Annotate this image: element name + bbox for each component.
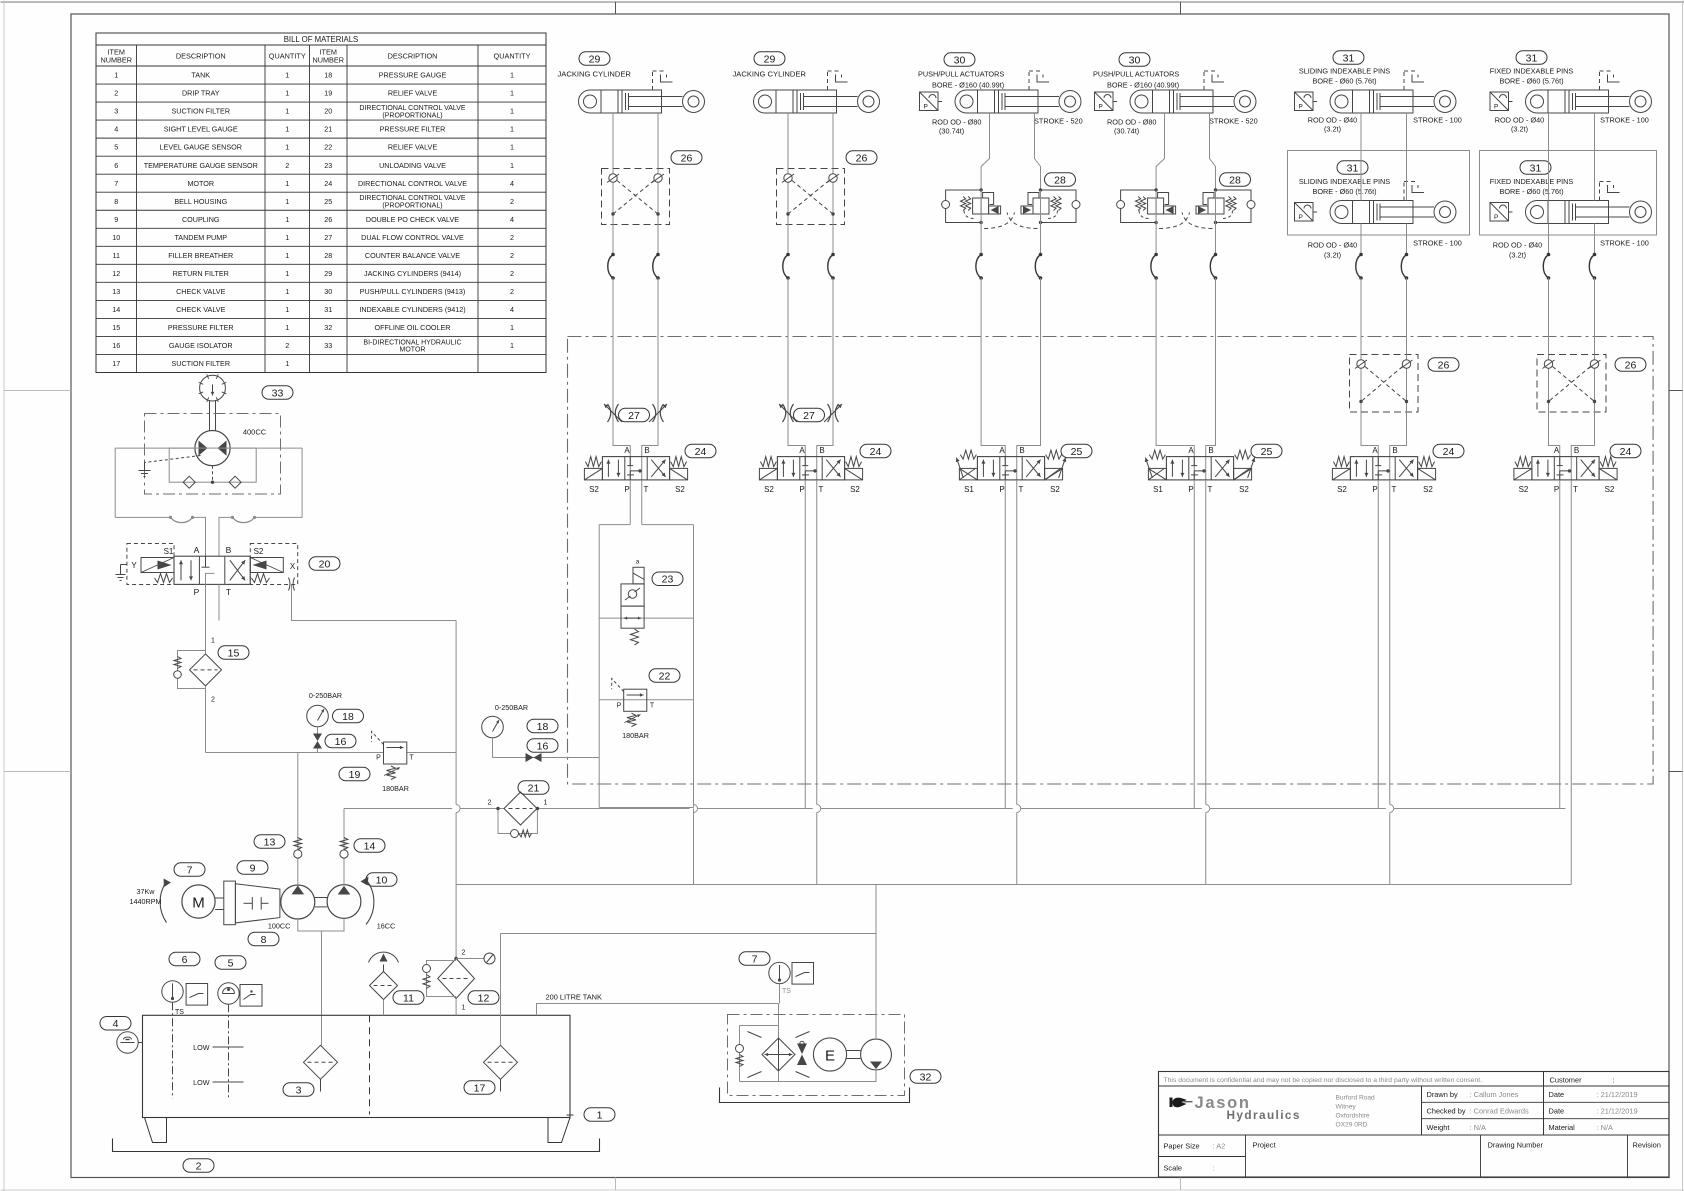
svg-text:14: 14 (112, 305, 120, 314)
svg-text:1: 1 (544, 800, 548, 807)
hose pair column 5 (1356, 255, 1361, 279)
pressure filter 21 (452, 805, 460, 813)
wire valve5 T to return bus (1389, 480, 1391, 885)
push/pull actuator 30 #1 (920, 71, 1082, 113)
svg-text:LOW: LOW (193, 1043, 210, 1052)
sight level gauge 4 (117, 1032, 138, 1053)
svg-text:B: B (1574, 446, 1579, 455)
jacking cylinder 29 #2 (754, 71, 880, 113)
wire jump at T2 (813, 805, 821, 813)
svg-text:1: 1 (510, 107, 514, 116)
svg-text:32: 32 (324, 323, 332, 332)
svg-text:1: 1 (285, 215, 289, 224)
svg-text:QUANTITY: QUANTITY (269, 52, 306, 61)
relief valve 22 (624, 689, 647, 711)
svg-text:PRESSURE FILTER: PRESSURE FILTER (168, 323, 234, 332)
svg-text:T: T (409, 755, 414, 762)
wire jump at T4 (1202, 805, 1210, 813)
svg-text:1: 1 (285, 251, 289, 260)
tandem pump 10 - pump 2 (16CC) (327, 885, 361, 919)
hose loop right (255, 516, 303, 518)
svg-text:1: 1 (597, 1109, 603, 1121)
double PO check valve 26 #2 (777, 169, 845, 225)
svg-text:1: 1 (285, 107, 289, 116)
gauge isolator 16 (manifold) (527, 739, 558, 753)
svg-text:: Callum Jones: : Callum Jones (1470, 1090, 1519, 1099)
svg-text:S1: S1 (164, 547, 174, 556)
svg-text:13: 13 (264, 836, 276, 848)
svg-text:: A2: : A2 (1213, 1142, 1226, 1151)
svg-text:29: 29 (764, 53, 776, 65)
level sensor 5 (218, 983, 239, 1004)
wire col5 hoses to PO check 26 (1360, 278, 1362, 355)
svg-text:26: 26 (1438, 359, 1450, 371)
svg-text:2: 2 (114, 89, 118, 98)
svg-text:CHECK VALVE: CHECK VALVE (176, 305, 225, 314)
svg-text:CHECK VALVE: CHECK VALVE (176, 287, 225, 296)
svg-text:: N/A: : N/A (1470, 1123, 1486, 1132)
svg-text:PUSH/PULL ACTUATORS: PUSH/PULL ACTUATORS (918, 70, 1004, 79)
svg-text:P: P (1494, 214, 1498, 221)
svg-text:T: T (1208, 485, 1213, 494)
tank roof raised line (537, 1004, 779, 1016)
svg-text:a: a (636, 559, 640, 566)
svg-text:T: T (819, 485, 824, 494)
svg-text:16: 16 (537, 740, 549, 752)
svg-text:200 LITRE TANK: 200 LITRE TANK (546, 993, 602, 1002)
sheet outer edge (1, 1, 1684, 3)
svg-text:Revision: Revision (1633, 1141, 1661, 1150)
wire valve20 T to drain (218, 584, 220, 620)
svg-text:DESCRIPTION: DESCRIPTION (176, 52, 226, 61)
cooler heat exchanger (762, 1038, 795, 1071)
wire through valve column 2 (804, 457, 806, 481)
svg-text:(PROPORTIONAL): (PROPORTIONAL) (382, 202, 442, 209)
svg-text:2: 2 (510, 287, 514, 296)
svg-text:DUAL FLOW CONTROL VALVE: DUAL FLOW CONTROL VALVE (361, 233, 464, 242)
svg-text:ROD OD - Ø40: ROD OD - Ø40 (1495, 116, 1544, 125)
svg-text:: Conrad Edwards: : Conrad Edwards (1470, 1107, 1529, 1116)
svg-text:COUNTER BALANCE VALVE: COUNTER BALANCE VALVE (365, 251, 460, 260)
zone tick marks (615, 2, 617, 14)
svg-text:NUMBER: NUMBER (100, 56, 132, 65)
svg-text:Project: Project (1253, 1141, 1276, 1150)
svg-text:STROKE - 100: STROKE - 100 (1600, 116, 1649, 125)
temperature sensor 7 (cooler) (769, 962, 790, 983)
svg-text:1: 1 (462, 1005, 466, 1012)
svg-text:SLIDING INDEXABLE PINS: SLIDING INDEXABLE PINS (1299, 67, 1390, 76)
svg-text:P: P (999, 485, 1004, 494)
svg-text:18: 18 (342, 711, 354, 723)
svg-text:BORE - Ø60 (5.76t): BORE - Ø60 (5.76t) (1499, 187, 1563, 196)
svg-text:SLIDING INDEXABLE PINS: SLIDING INDEXABLE PINS (1299, 177, 1390, 186)
svg-text:1: 1 (510, 125, 514, 134)
filler breather 11 (370, 972, 398, 1000)
svg-text:S2: S2 (764, 485, 774, 494)
wire through valve column 3 (1004, 457, 1006, 481)
svg-text:26: 26 (681, 152, 693, 164)
dual flow control valve 27 #1 (608, 404, 611, 422)
check valve 13 (297, 753, 299, 886)
svg-text:RELIEF VALVE: RELIEF VALVE (388, 143, 437, 152)
svg-text:1440RPM: 1440RPM (130, 897, 162, 906)
svg-text:6: 6 (182, 954, 188, 966)
cooler bypass check (740, 1025, 779, 1027)
svg-text:(30.74t): (30.74t) (1114, 127, 1139, 136)
wire valve20 P to filter 15 (205, 584, 207, 654)
svg-text:7: 7 (187, 864, 193, 876)
svg-text:TS: TS (782, 988, 791, 995)
hose loop left (115, 516, 170, 518)
svg-text:NUMBER: NUMBER (312, 56, 344, 65)
svg-text:2: 2 (211, 697, 215, 704)
cooler electric motor (813, 1038, 846, 1071)
svg-text:100CC: 100CC (268, 922, 290, 931)
svg-text:ROD OD - Ø40: ROD OD - Ø40 (1308, 241, 1357, 250)
svg-text:20: 20 (319, 558, 331, 570)
svg-text:31: 31 (1530, 162, 1542, 174)
svg-text:9: 9 (114, 215, 118, 224)
svg-text:1: 1 (285, 305, 289, 314)
svg-text:ROD OD - Ø40: ROD OD - Ø40 (1308, 116, 1357, 125)
cooler suction line (500, 934, 502, 1046)
svg-text:A: A (999, 446, 1005, 455)
svg-text:16: 16 (112, 341, 120, 350)
svg-text:14: 14 (364, 840, 376, 852)
manifold block for valves 23/22 (629, 480, 631, 525)
svg-text:SIGHT LEVEL GAUGE: SIGHT LEVEL GAUGE (164, 125, 238, 134)
svg-text:P: P (799, 485, 804, 494)
suction filter 3 (304, 1045, 338, 1079)
drain line to return filter (455, 621, 457, 959)
svg-text:This document is confidential: This document is confidential and may no… (1164, 1077, 1483, 1084)
wire cylinder29#1 port B (657, 113, 659, 169)
svg-text::: : (1213, 1164, 1215, 1173)
svg-text:11: 11 (403, 992, 414, 1004)
svg-text:B: B (819, 446, 824, 455)
svg-text:20: 20 (324, 107, 332, 116)
svg-text:Drawing Number: Drawing Number (1488, 1141, 1544, 1150)
svg-text:7: 7 (114, 179, 118, 188)
svg-text:JACKING CYLINDER: JACKING CYLINDER (733, 70, 807, 79)
svg-text:0-250BAR: 0-250BAR (309, 691, 342, 700)
svg-text:31: 31 (324, 305, 332, 314)
svg-text:MOTOR: MOTOR (187, 179, 214, 188)
wire col1 A to hose (612, 225, 614, 255)
svg-text:BORE - Ø60 (5.76t): BORE - Ø60 (5.76t) (1312, 77, 1376, 86)
svg-text:29: 29 (589, 53, 601, 65)
wire actuator30#2 port B (1210, 113, 1216, 191)
svg-text:27: 27 (324, 233, 332, 242)
tandem pump 10 - pump 1 (100CC) (281, 885, 315, 919)
svg-text:DOUBLE PO CHECK VALVE: DOUBLE PO CHECK VALVE (366, 215, 459, 224)
svg-text:2: 2 (196, 1160, 202, 1172)
svg-text:GAUGE ISOLATOR: GAUGE ISOLATOR (169, 341, 233, 350)
svg-text:P: P (1554, 485, 1559, 494)
svg-text:PRESSURE FILTER: PRESSURE FILTER (380, 125, 446, 134)
svg-text:1: 1 (510, 341, 514, 350)
svg-text:24: 24 (695, 446, 707, 458)
svg-text:26: 26 (324, 215, 332, 224)
wire col3 B to hose (1040, 191, 1042, 255)
svg-text:21: 21 (528, 782, 540, 794)
svg-text:30: 30 (324, 287, 332, 296)
wire valve2 P to pressure bus (804, 480, 806, 809)
valve20 Y drain ground (121, 564, 127, 566)
title block (1159, 1072, 1670, 1178)
svg-text:FIXED INDEXABLE PINS: FIXED INDEXABLE PINS (1490, 67, 1574, 76)
svg-text:3: 3 (296, 1084, 302, 1096)
tank legs (145, 1118, 167, 1143)
svg-text:BORE - Ø160 (40.99t): BORE - Ø160 (40.99t) (932, 81, 1004, 90)
svg-text:1: 1 (285, 143, 289, 152)
svg-text:T: T (1392, 485, 1397, 494)
svg-text:Burford Road: Burford Road (1336, 1095, 1376, 1102)
unloading valve 23 (621, 584, 644, 606)
svg-text:A: A (194, 545, 200, 555)
tank 1 (143, 1015, 571, 1117)
Jason Hydraulics logo (1170, 1098, 1173, 1108)
svg-text:COUPLING: COUPLING (182, 215, 220, 224)
svg-text:P: P (924, 104, 928, 111)
wire col3 hoses to valve (981, 278, 1005, 457)
svg-text:28: 28 (324, 251, 332, 260)
directional control valve 24 (column 2) (777, 457, 844, 480)
svg-text:RELIEF VALVE: RELIEF VALVE (388, 89, 437, 98)
svg-text:S2: S2 (1423, 485, 1433, 494)
return bus (456, 884, 1571, 886)
wire actuator30#1 port B (1035, 113, 1041, 191)
svg-text:S2: S2 (850, 485, 860, 494)
svg-text:1: 1 (510, 89, 514, 98)
svg-text:33: 33 (324, 341, 332, 350)
svg-text:P: P (194, 587, 200, 597)
svg-text:PRESSURE GAUGE: PRESSURE GAUGE (379, 71, 447, 80)
svg-text:18: 18 (537, 721, 549, 733)
svg-text:12: 12 (478, 992, 490, 1004)
svg-text:2: 2 (285, 161, 289, 170)
jacking cylinder 29 #1 (579, 71, 705, 113)
gauge isolator 16 (317, 727, 319, 734)
cooler outlet piping (740, 1070, 877, 1082)
wire col2 hoses to valve (788, 278, 805, 457)
wire through valve column 1 (629, 457, 631, 481)
svg-text:1: 1 (285, 197, 289, 206)
supply line (206, 752, 384, 754)
svg-text:TEMPERATURE GAUGE SENSOR: TEMPERATURE GAUGE SENSOR (144, 161, 258, 170)
check valve 14 (343, 809, 345, 886)
svg-text:INDEXABLE CYLINDERS (9412): INDEXABLE CYLINDERS (9412) (359, 305, 465, 314)
svg-text:26: 26 (1625, 359, 1637, 371)
hose pair column 1 (608, 255, 613, 279)
svg-text:X: X (290, 562, 296, 571)
wire jump at T5 (1386, 805, 1394, 813)
svg-text:Date: Date (1549, 1090, 1565, 1099)
svg-text:E: E (825, 1048, 835, 1065)
svg-text:1: 1 (510, 323, 514, 332)
wire cylinder29#2 port B (832, 113, 834, 169)
svg-text:1: 1 (211, 638, 215, 645)
pump suction lines (298, 918, 344, 931)
svg-text:TANDEM PUMP: TANDEM PUMP (174, 233, 227, 242)
svg-text:B: B (1208, 446, 1213, 455)
svg-text:P: P (1494, 104, 1498, 111)
wire col1 hoses to valve (613, 278, 630, 457)
svg-text:12: 12 (112, 269, 120, 278)
svg-text:7: 7 (752, 953, 758, 965)
svg-text:S2: S2 (1239, 485, 1249, 494)
svg-text:BORE - Ø60 (5.76t): BORE - Ø60 (5.76t) (1499, 77, 1563, 86)
svg-text:OX29 0RD: OX29 0RD (1336, 1122, 1368, 1129)
svg-text:S1: S1 (1153, 485, 1163, 494)
svg-text:BELL HOUSING: BELL HOUSING (174, 197, 227, 206)
cooler pump (861, 1039, 892, 1070)
drip tray 2 (113, 1139, 600, 1152)
suction filter 17 (484, 1045, 518, 1079)
wire col6 to valve (1549, 412, 1560, 457)
svg-text:(3.2t): (3.2t) (1324, 251, 1341, 260)
svg-text:2: 2 (510, 251, 514, 260)
svg-text:Oxfordshire: Oxfordshire (1336, 1113, 1370, 1120)
svg-text:1: 1 (510, 71, 514, 80)
wire valve4 P to pressure bus (1193, 480, 1195, 809)
svg-text:LEVEL GAUGE SENSOR: LEVEL GAUGE SENSOR (160, 143, 242, 152)
svg-text:MOTOR: MOTOR (400, 347, 426, 354)
svg-text:P: P (376, 755, 381, 762)
svg-text:31: 31 (1343, 52, 1355, 64)
svg-text:STROKE - 100: STROKE - 100 (1413, 116, 1462, 125)
svg-text:RETURN FILTER: RETURN FILTER (173, 269, 229, 278)
svg-text:1: 1 (285, 179, 289, 188)
svg-text:(3.2t): (3.2t) (1324, 125, 1341, 134)
svg-text:Material: Material (1549, 1123, 1576, 1132)
svg-text:P: P (1299, 214, 1303, 221)
svg-text:A: A (1372, 446, 1378, 455)
wire filter15 to supply line (205, 686, 207, 753)
svg-text:16: 16 (335, 736, 347, 748)
svg-text:180BAR: 180BAR (382, 784, 409, 793)
svg-text:S2: S2 (1519, 485, 1529, 494)
wire pins column 1 port B (1406, 113, 1408, 201)
svg-text:1: 1 (114, 71, 118, 80)
svg-text:15: 15 (112, 323, 120, 332)
svg-text:S2: S2 (1337, 485, 1347, 494)
svg-text:32: 32 (920, 1071, 932, 1083)
svg-text:T: T (1573, 485, 1578, 494)
svg-text:27: 27 (628, 410, 640, 422)
svg-text:JACKING CYLINDER: JACKING CYLINDER (558, 70, 632, 79)
wire jump at manifold drain (690, 805, 698, 813)
svg-text:28: 28 (1229, 174, 1241, 186)
svg-text:: 21/12/2019: : 21/12/2019 (1597, 1107, 1638, 1116)
svg-text:QUANTITY: QUANTITY (494, 52, 531, 61)
wire col2 A to hose (787, 225, 789, 255)
push/pull actuator 30 #2 (1095, 71, 1257, 113)
svg-text:4: 4 (113, 1018, 119, 1030)
svg-text:P: P (1372, 485, 1377, 494)
motor 33 loop wires (115, 447, 195, 449)
svg-text:21: 21 (324, 125, 332, 134)
tank baffle (369, 1015, 371, 1114)
offline oil cooler 32 enclosure (728, 1015, 905, 1096)
wire pins column 2 port A (1548, 113, 1550, 201)
wire valve3 T to return bus (1016, 480, 1018, 885)
svg-text:: N/A: : N/A (1597, 1123, 1613, 1132)
svg-text::: : (1613, 1076, 1615, 1085)
svg-text:400CC: 400CC (243, 428, 267, 437)
svg-text:15: 15 (228, 647, 240, 659)
svg-text:BILL OF MATERIALS: BILL OF MATERIALS (284, 35, 359, 44)
svg-text:25: 25 (324, 197, 332, 206)
hose pair column 2 (783, 255, 788, 279)
svg-text:8: 8 (114, 197, 118, 206)
wire actuator30#1 port A (981, 113, 989, 191)
wire pins column 2 port B (1594, 113, 1596, 201)
svg-text:2: 2 (510, 197, 514, 206)
svg-text:A: A (799, 446, 805, 455)
svg-text:1: 1 (510, 161, 514, 170)
svg-text:9: 9 (250, 862, 256, 874)
wire valve4 T to return bus (1205, 480, 1207, 885)
svg-text:P: P (1188, 485, 1193, 494)
svg-text:JACKING CYLINDERS (9414): JACKING CYLINDERS (9414) (364, 269, 461, 278)
svg-text:4: 4 (510, 215, 514, 224)
wire jump at T3 (1013, 805, 1021, 813)
svg-text:24: 24 (1443, 446, 1455, 458)
double PO check valve 26 #3 (1350, 355, 1419, 413)
indexable pin cylinder 31 upper #2 (FIXED INDEXABLE PINS) (1490, 71, 1652, 113)
svg-text:18: 18 (324, 71, 332, 80)
wire col1 B to hose (657, 225, 659, 255)
wire pins column 1 port A (1360, 113, 1362, 201)
svg-text:ROD OD - Ø80: ROD OD - Ø80 (1107, 118, 1156, 127)
svg-text:Hydraulics: Hydraulics (1227, 1108, 1301, 1122)
dual flow control valve 27 #2 (783, 404, 786, 422)
motor 33 case drain (145, 456, 201, 463)
double PO check valve 26 #1 (602, 169, 670, 225)
svg-text:6: 6 (114, 161, 118, 170)
svg-text:: 21/12/2019: : 21/12/2019 (1597, 1090, 1638, 1099)
svg-text:B: B (226, 545, 232, 555)
svg-text:2: 2 (488, 800, 492, 807)
counterbalance valve 28 #2 (1121, 190, 1157, 223)
wire valve3 P to pressure bus (1004, 480, 1006, 809)
svg-text:S2: S2 (675, 485, 685, 494)
svg-text:S2: S2 (1605, 485, 1615, 494)
svg-text:2: 2 (462, 950, 466, 957)
wire supply to relief19 T (407, 752, 456, 754)
wire valve2 T to return bus (816, 480, 818, 885)
svg-text:T: T (1019, 485, 1024, 494)
svg-text:23: 23 (324, 161, 332, 170)
directional control valve 25 (column 3) (977, 457, 1044, 480)
svg-text:31: 31 (1347, 162, 1359, 174)
svg-text:3: 3 (114, 107, 118, 116)
svg-text:1: 1 (510, 143, 514, 152)
wire col6 hoses to PO check 26 (1548, 278, 1550, 355)
svg-text:BORE - Ø60 (5.76t): BORE - Ø60 (5.76t) (1312, 187, 1376, 196)
svg-text:17: 17 (112, 359, 120, 368)
svg-text:1: 1 (285, 71, 289, 80)
wire through valve column 5 (1377, 457, 1379, 481)
svg-text:(PROPORTIONAL): (PROPORTIONAL) (382, 112, 442, 119)
svg-text:(3.2t): (3.2t) (1511, 125, 1528, 134)
svg-text:Scale: Scale (1164, 1164, 1183, 1173)
directional control valve 24 (column 1) (602, 457, 669, 480)
wire col5 to valve (1361, 412, 1378, 457)
svg-text:Paper Size: Paper Size (1164, 1142, 1200, 1151)
svg-text:25: 25 (1261, 446, 1273, 458)
